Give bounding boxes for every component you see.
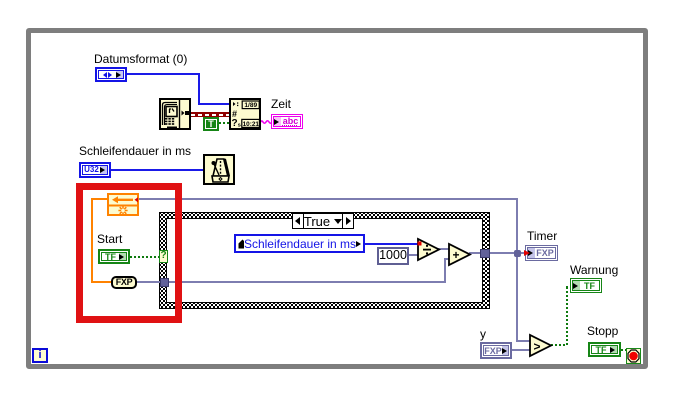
wire: green dotted gt to Warnung bbox=[551, 344, 566, 346]
wire: green dotted Stopp to stop terminal bbox=[621, 349, 626, 351]
svg-text:?: ? bbox=[232, 118, 238, 129]
case selector label True bbox=[292, 213, 354, 229]
divide node bbox=[416, 237, 441, 262]
junction dot bbox=[514, 250, 521, 257]
control U32 bbox=[79, 162, 111, 178]
svg-text:10:21: 10:21 bbox=[243, 121, 260, 128]
wire: orange feedback loop bbox=[91, 198, 107, 200]
wire: FXP pill to left tunnel bbox=[136, 281, 161, 283]
svg-text:1/89: 1/89 bbox=[244, 102, 257, 109]
wire: slate vertical x516 bbox=[516, 198, 518, 342]
local variable Schleifendauer in ms bbox=[234, 234, 365, 253]
label Timer bbox=[527, 230, 557, 243]
wire: green dotted Start to selector bbox=[130, 256, 159, 258]
case structure border bbox=[159, 212, 490, 309]
svg-text:s: s bbox=[238, 123, 241, 129]
while loop bbox=[26, 28, 648, 369]
coercion dot Timer bbox=[524, 250, 530, 256]
loop stop terminal bbox=[626, 348, 641, 364]
wire: slate to gt top input bbox=[516, 340, 530, 342]
metronome wait icon bbox=[203, 154, 235, 185]
wire: riser to plus lower input bbox=[444, 258, 446, 283]
FXP pill bbox=[111, 276, 137, 289]
selector ? tunnel bbox=[159, 250, 168, 263]
iteration terminal i bbox=[32, 348, 48, 363]
label y bbox=[480, 328, 486, 341]
left tunnel bbox=[160, 278, 169, 287]
wire: slate top long (tunnel junction to feedback node) bbox=[139, 198, 517, 200]
string indicator Zeit bbox=[271, 114, 303, 129]
FXP indicator Timer bbox=[525, 245, 558, 261]
label Datumsformat (0) bbox=[94, 53, 187, 66]
label Zeit bbox=[271, 98, 291, 111]
TF control Stopp bbox=[588, 342, 621, 357]
wire: blue local var to divide bbox=[364, 243, 418, 245]
wire: 1000 to divide bbox=[408, 254, 418, 256]
label Schleifendauer in ms bbox=[79, 145, 191, 158]
wire: blue U32 to metronome bbox=[110, 169, 203, 171]
plus node bbox=[447, 242, 472, 267]
label Stopp bbox=[587, 325, 618, 338]
wire: case bottom horizontal bbox=[168, 281, 446, 283]
wire: plus out to Timer bbox=[469, 252, 526, 254]
wire: blue Datumsformat bbox=[126, 73, 199, 75]
true constant T bbox=[203, 117, 219, 131]
wire: timestamp clock to format bbox=[191, 112, 229, 117]
wire: pink wavy format to Zeit bbox=[260, 118, 272, 126]
red annotation rectangle bbox=[76, 183, 182, 323]
ring control Datumsformat bbox=[95, 67, 127, 82]
constant 1000 bbox=[377, 247, 409, 265]
clock / get date-time icon bbox=[159, 98, 191, 130]
feedback node bbox=[107, 193, 139, 216]
label Start bbox=[97, 233, 122, 246]
wire: y to gt bbox=[512, 349, 530, 351]
wire: riser elbow to plus bbox=[444, 258, 452, 260]
format date/time string node bbox=[229, 98, 261, 130]
TF control Start bbox=[98, 249, 130, 264]
wire: green dotted T to format node bbox=[219, 122, 229, 124]
svg-text:+: + bbox=[453, 248, 460, 262]
right tunnel bbox=[480, 249, 490, 258]
svg-text:>: > bbox=[534, 340, 541, 354]
greater-than node bbox=[528, 333, 553, 358]
wire: divide to plus bbox=[438, 248, 449, 250]
TF indicator Warnung bbox=[570, 278, 602, 293]
label Warnung bbox=[570, 264, 618, 277]
FXP control y bbox=[480, 342, 512, 359]
